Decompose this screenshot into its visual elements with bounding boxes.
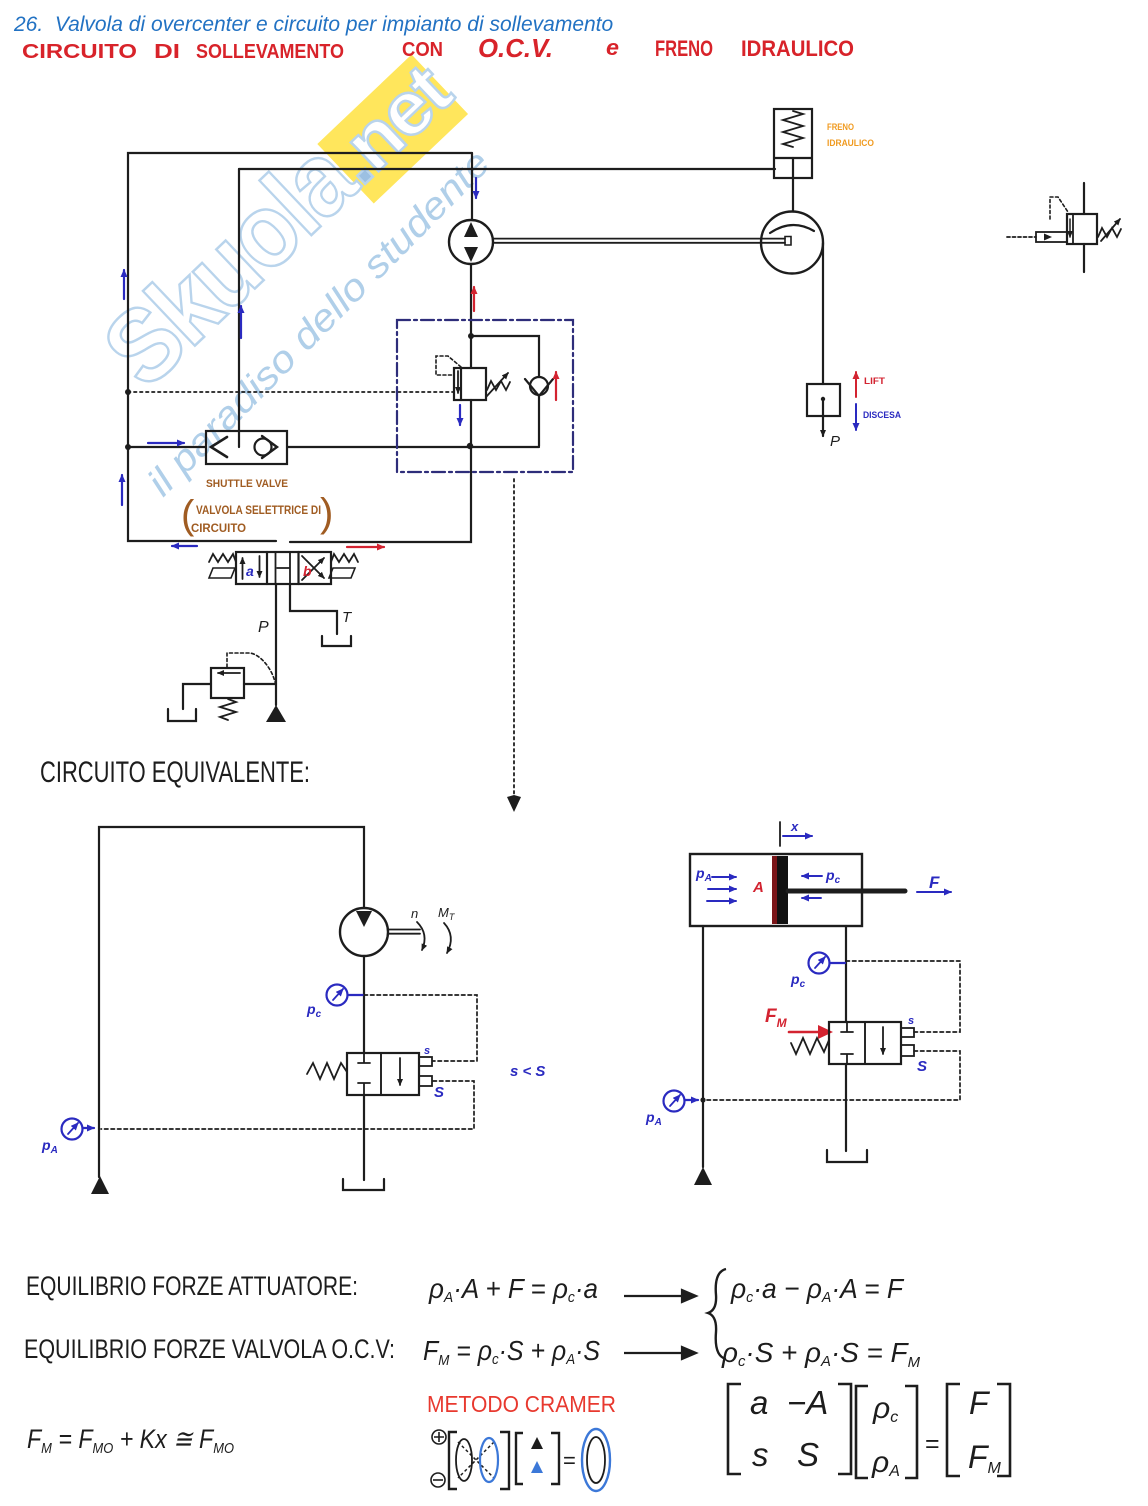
svg-text:pA: pA bbox=[41, 1137, 58, 1156]
pump M1 bidirectional bbox=[449, 220, 493, 264]
wire OCV to tank right bbox=[845, 1064, 847, 1151]
svg-text:VALVOLA SELETTRICE DI: VALVOLA SELETTRICE DI bbox=[196, 503, 321, 517]
blue arrow left edge lower bbox=[121, 475, 123, 505]
wire rope pulley to load bbox=[822, 243, 824, 384]
motor M2 bbox=[340, 908, 388, 956]
wire left loop bbox=[99, 827, 364, 1177]
MAIN CIRCUIT bbox=[122, 109, 1121, 812]
svg-text:T: T bbox=[342, 609, 353, 626]
svg-text:FM: FM bbox=[765, 1006, 788, 1030]
wire shuttle to OCV bottom bbox=[288, 446, 539, 448]
svg-text:S: S bbox=[917, 1058, 927, 1075]
svg-text:CIRCUITO: CIRCUITO bbox=[191, 521, 246, 535]
svg-text:x: x bbox=[790, 819, 799, 834]
svg-text:s: s bbox=[424, 1045, 430, 1057]
svg-text:ρA: ρA bbox=[871, 1446, 900, 1480]
svg-text:−A: −A bbox=[787, 1384, 828, 1421]
FORMULAS bbox=[24, 1269, 1010, 1491]
tank T symbol bbox=[322, 636, 351, 646]
svg-text:FM = ρc·S + ρA·S: FM = ρc·S + ρA·S bbox=[423, 1335, 600, 1369]
svg-text:MT: MT bbox=[438, 905, 456, 922]
label DISCESA with blue arrow bbox=[856, 404, 901, 430]
cramer triangle blue bbox=[531, 1461, 543, 1473]
svg-text:S: S bbox=[797, 1436, 819, 1473]
position b arrows bbox=[302, 558, 324, 580]
wire inner top line to brake bbox=[239, 168, 775, 170]
directional valve DV 4/3 bbox=[236, 552, 331, 584]
svg-text:=: = bbox=[925, 1430, 940, 1458]
spring of V1 bbox=[487, 381, 510, 390]
blue flow arrow left of DV bbox=[172, 545, 197, 547]
label pc arrows in rod chamber bbox=[802, 867, 841, 898]
svg-text:FRENO: FRENO bbox=[827, 122, 854, 133]
tank left bbox=[343, 1179, 384, 1190]
node junction left shuttle bbox=[125, 444, 131, 450]
dotted arrow to equivalent circuit bbox=[513, 479, 515, 795]
gauge pc right bbox=[790, 953, 845, 991]
check valve C1 bbox=[525, 377, 553, 396]
label MT with arrow bbox=[438, 905, 456, 953]
arrow 2 bbox=[624, 1347, 696, 1359]
EQUIVALENT CIRCUITS bbox=[40, 756, 960, 1194]
svg-text:ρc·a − ρA·A = F: ρc·a − ρA·A = F bbox=[730, 1273, 905, 1306]
svg-text:ρc·S + ρA·S = FM: ρc·S + ρA·S = FM bbox=[721, 1337, 920, 1371]
heading CIRCUITO DI SOLLEVAMENTO bbox=[22, 33, 854, 63]
wire outer loop top and left bbox=[128, 153, 472, 541]
brace bbox=[708, 1269, 726, 1359]
wire left edge to shuttle bbox=[128, 446, 206, 448]
svg-text:pc: pc bbox=[306, 1001, 322, 1020]
pilot dashed S to pA bbox=[101, 1081, 474, 1129]
svg-text:P: P bbox=[830, 433, 840, 450]
svg-text:SHUTTLE VALVE: SHUTTLE VALVE bbox=[206, 478, 288, 490]
node junction OCV top bbox=[468, 333, 474, 339]
OCV block dash-dot box bbox=[397, 320, 573, 472]
svg-text:a: a bbox=[750, 1384, 768, 1421]
red flow arrow right of DV bbox=[347, 546, 384, 548]
wire OCV to tank left bbox=[363, 1095, 365, 1180]
svg-text:A: A bbox=[752, 879, 764, 896]
arrow variable of V1 bbox=[486, 373, 508, 397]
spring left of DV bbox=[209, 554, 236, 578]
wire outer loop bottom right bbox=[290, 446, 471, 542]
tank of relief valve bbox=[168, 709, 196, 721]
label FRENO IDRAULICO bbox=[827, 122, 874, 149]
pressure source triangle right bbox=[694, 1167, 712, 1185]
gauge pA left bbox=[41, 1119, 94, 1157]
svg-text:b: b bbox=[303, 563, 312, 579]
wire pump bottom to OCV block bbox=[470, 264, 472, 368]
node junction OCV bottom bbox=[467, 443, 473, 449]
svg-text:METODO CRAMER: METODO CRAMER bbox=[427, 1391, 616, 1417]
svg-text:pA: pA bbox=[695, 865, 712, 884]
svg-text:LIFT: LIFT bbox=[864, 376, 885, 387]
svg-text:CIRCUITO EQUIVALENTE:: CIRCUITO EQUIVALENTE: bbox=[40, 756, 310, 789]
arrow 1 bbox=[624, 1290, 696, 1302]
matrix vector brackets bbox=[856, 1386, 917, 1478]
svg-text:O.C.V.: O.C.V. bbox=[478, 33, 553, 63]
cramer matrix brackets bbox=[449, 1432, 509, 1489]
label n with arrow bbox=[411, 906, 425, 950]
blue arrow above pump bbox=[475, 178, 477, 198]
svg-text:S: S bbox=[434, 1084, 444, 1101]
brake freno idraulico bbox=[774, 109, 812, 211]
matrix vector entries bbox=[871, 1392, 900, 1480]
rhs entries bbox=[968, 1385, 1002, 1477]
cramer cross dotted bbox=[458, 1442, 494, 1478]
matrix M1 entries bbox=[750, 1384, 828, 1473]
wire cylinder right port down bbox=[845, 926, 847, 1022]
pilot dashed s to pc right bbox=[846, 961, 960, 1032]
svg-text:P: P bbox=[258, 619, 269, 636]
TITLES bbox=[13, 13, 854, 63]
OCV valve right circuit bbox=[829, 1022, 914, 1064]
red arrow below pump bbox=[473, 287, 475, 311]
svg-text:n: n bbox=[411, 906, 418, 921]
svg-text:s < S: s < S bbox=[510, 1063, 545, 1080]
svg-text:F: F bbox=[969, 1385, 991, 1421]
wire motor to OCV valve bbox=[363, 956, 365, 1053]
svg-text:IDRAULICO: IDRAULICO bbox=[741, 36, 854, 61]
svg-text:CIRCUITO: CIRCUITO bbox=[22, 41, 137, 63]
blue arrow below V1 bbox=[459, 405, 461, 425]
cramer ellipse black bbox=[456, 1439, 472, 1481]
label LIFT with red arrow bbox=[856, 372, 885, 397]
svg-text:F: F bbox=[929, 873, 940, 892]
position a arrows bbox=[242, 558, 244, 579]
shaft of M2 bbox=[388, 930, 420, 934]
cramer triangle black bbox=[531, 1437, 543, 1449]
svg-text:IDRAULICO: IDRAULICO bbox=[827, 138, 874, 149]
svg-text:s: s bbox=[752, 1436, 769, 1473]
label pA arrows in chamber bbox=[695, 865, 736, 901]
gauge pA right bbox=[645, 1091, 698, 1129]
svg-text:e: e bbox=[606, 35, 619, 60]
blue arrow inner vertical bbox=[240, 306, 242, 338]
blue arrow into shuttle bbox=[148, 442, 184, 444]
tank right bbox=[827, 1150, 867, 1162]
overcenter relief valve V1 bbox=[454, 368, 486, 400]
wire cylinder left port down bbox=[702, 926, 704, 1167]
rhs brackets bbox=[947, 1384, 1010, 1476]
relief valve RV bbox=[183, 653, 276, 720]
cylinder actuator bbox=[690, 854, 905, 926]
shuttle valve SV bbox=[206, 431, 287, 464]
svg-text:EQUILIBRIO FORZE VALVOLA O.C.V: EQUILIBRIO FORZE VALVOLA O.C.V: bbox=[24, 1334, 395, 1364]
wire OCV valve to bottom junction bbox=[470, 400, 472, 446]
wire pilot dotted line bbox=[128, 391, 454, 393]
label F force bbox=[917, 873, 951, 892]
svg-text:CON: CON bbox=[402, 39, 443, 61]
svg-text:=: = bbox=[563, 1448, 576, 1473]
gauge pc left bbox=[306, 985, 363, 1021]
matrix equation brackets M1 bbox=[728, 1384, 851, 1474]
red arrow beside check valve bbox=[555, 372, 557, 400]
OCV valve left circuit bbox=[347, 1053, 432, 1095]
svg-text:FRENO: FRENO bbox=[655, 36, 713, 61]
svg-text:pA: pA bbox=[645, 1109, 662, 1128]
shaft pump to pulley bbox=[493, 239, 785, 243]
overcenter valve symbol right margin bbox=[1007, 183, 1121, 272]
spring right of DV bbox=[329, 554, 358, 578]
label x displacement bbox=[780, 819, 812, 846]
wire T line bbox=[290, 584, 337, 634]
pulley drum bbox=[761, 212, 823, 274]
blue arrow left edge upper bbox=[123, 270, 125, 299]
svg-text:FM: FM bbox=[968, 1439, 1002, 1477]
cramer zero oval bbox=[582, 1429, 610, 1491]
cramer vector brackets bbox=[516, 1433, 559, 1484]
svg-text:EQUILIBRIO FORZE ATTUATORE:: EQUILIBRIO FORZE ATTUATORE: bbox=[26, 1271, 358, 1301]
svg-text:DISCESA: DISCESA bbox=[863, 410, 901, 420]
spring of OCV left bbox=[307, 1063, 347, 1079]
wire pump to top bbox=[471, 153, 473, 220]
svg-text:FM = FMO + Kx ≅ FMO: FM = FMO + Kx ≅ FMO bbox=[27, 1424, 234, 1457]
svg-text:pc: pc bbox=[790, 971, 806, 990]
wire inner vertical to shuttle valve bbox=[238, 169, 240, 431]
svg-text:ρc: ρc bbox=[872, 1392, 898, 1426]
pilot dashed S to pA right bbox=[704, 1051, 960, 1100]
node junction pA right bbox=[700, 1097, 705, 1102]
svg-text:s: s bbox=[908, 1015, 914, 1027]
cramer ellipse blue bbox=[480, 1438, 498, 1482]
wire check valve branch bbox=[471, 336, 539, 446]
svg-text:): ) bbox=[320, 491, 333, 535]
svg-text:DI: DI bbox=[154, 41, 180, 63]
load mass bbox=[807, 384, 840, 450]
cramer minus sign bbox=[431, 1473, 445, 1487]
pilot dashed s to pc bbox=[364, 995, 477, 1061]
svg-text:pc: pc bbox=[825, 867, 841, 886]
pressure source triangle left bbox=[91, 1176, 109, 1194]
svg-text:SOLLEVAMENTO: SOLLEVAMENTO bbox=[196, 41, 344, 63]
WATERMARK bbox=[82, 30, 499, 504]
label FM red with arrow bbox=[765, 1006, 833, 1039]
node junction left pilot bbox=[125, 389, 131, 395]
wire P line bbox=[275, 584, 277, 705]
label valvola selettrice bbox=[181, 491, 333, 537]
pilot dashed box of V1 bbox=[436, 356, 461, 375]
svg-text:ρA·A + F = ρc·a: ρA·A + F = ρc·a bbox=[428, 1273, 598, 1306]
spring of OCV right bbox=[791, 1038, 829, 1054]
cramer plus sign bbox=[432, 1430, 446, 1444]
svg-text:a: a bbox=[246, 563, 254, 579]
pressure source triangle bbox=[266, 705, 286, 722]
